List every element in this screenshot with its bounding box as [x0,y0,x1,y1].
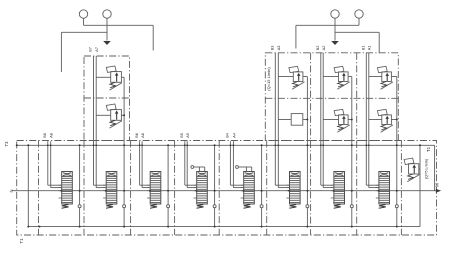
left block divider [84,97,130,99]
drain orifice section 5 [260,205,263,208]
wire: work lines section 7 [321,53,334,188]
wire: work lines section 1 [48,141,62,187]
wire: col 2 row2 output [348,119,352,121]
manifold outline (dash-dot) [17,141,437,236]
wire: work lines section 2 [94,56,106,188]
wire: left block RV1 output [121,76,124,78]
svg-text:B3: B3 [270,46,275,51]
wire: work lines section 6 [275,53,289,188]
wire: drain section 6 [306,77,308,227]
node: N tap section 4 [195,190,197,192]
relief valve R2b [334,109,350,132]
wire: T3 right drop to outlet M [434,145,436,190]
svg-text:T3: T3 [4,141,9,147]
relief valve R2a [334,66,350,89]
gallery T1 [28,226,420,228]
port circle P7a [79,10,87,18]
svg-text:B7: B7 [88,47,93,52]
drain orifice section 7 [350,205,353,208]
wire: left port pair [61,18,153,72]
node: work line taps on T3, section 4 [184,144,186,146]
relief valve RV-T [404,158,420,182]
node: work line taps on T3, section 5 [230,144,232,146]
wire: drain section 3 [167,145,169,226]
svg-text:A5: A5 [185,133,190,138]
valve V5 [241,172,255,209]
valve V1 [59,172,73,209]
drain orifice section 2 [123,205,126,208]
wire: right block col 1 row1 output [303,76,308,78]
relief valve RV7b [106,104,122,128]
valve V7 [331,172,345,209]
wire: plug output [303,119,308,121]
node: work line taps on T3, section 8 [365,144,367,146]
valve V8 [376,172,390,209]
wire: work lines section 3 [140,141,150,187]
wire: drain section 4 [214,145,216,226]
node: work line taps on T3, section 3 [139,144,141,146]
svg-text:A1: A1 [367,46,372,51]
valve V4 [194,172,208,209]
node: work line taps on T3, section 6 [274,144,276,146]
port circle P7b [103,10,111,18]
node: N tap section 7 [333,190,335,192]
pilot line of valve V4 [191,166,205,172]
wire: drain section 8 [396,77,398,227]
svg-text:M: M [435,183,440,187]
drain orifice section 8 [395,205,398,208]
drain orifice section 6 [306,205,309,208]
wire: drain section 2 [123,77,125,226]
valve V2 [103,172,117,209]
node: N tap section 6 [288,190,290,192]
wire: right block col 1 row1 input [278,76,293,78]
relief valve RV7a [106,66,122,90]
wire: drain section 5 [261,145,263,226]
wire: right block col 3 row2 input [369,119,382,121]
wire: right block col 3 row1 output [391,76,396,78]
valve V3 [147,172,161,209]
svg-text:B8: B8 [42,133,47,138]
wire: col 3 row2 output [391,119,396,121]
wire: right port pair [296,18,379,53]
wire T3-T1 left riser [27,145,29,226]
node: work line taps on T3, section 1 [47,144,49,146]
svg-text:A2: A2 [321,46,326,51]
drain orifice section 3 [167,205,170,208]
wire: end relief riser [419,145,421,226]
relief valve R3b [377,109,393,132]
wire: drain section 1 [79,145,81,226]
node: N tap section 5 [242,190,244,192]
wire: right block col 3 row1 input [369,76,382,78]
svg-text:N: N [9,189,14,192]
relief valve R1a [289,66,305,89]
wire: work lines section 4 [185,141,197,187]
wire: right block col 2 row2 input [323,119,338,121]
drain orifice section 1 [78,205,81,208]
right relief block outline [265,53,398,141]
node: work line taps on T3, section 7 [320,144,322,146]
wire: plug input [278,119,291,121]
gallery N [12,190,437,192]
left relief block outline [84,56,130,141]
gallery T3 [16,144,435,146]
tank arrow left [103,41,111,45]
relief valve R3a [377,66,393,89]
tank arrow right [331,41,339,45]
section divider lines (dash-dot) [38,141,40,236]
wire: work lines section 8 [366,53,378,188]
wire: right block col 2 row1 input [323,76,338,78]
wire: left block RV1 input [96,76,111,78]
wire: drain section 7 [351,77,353,227]
wire: right block col 2 row1 output [348,76,352,78]
node: N tap section 2 [105,190,107,192]
pilot line of valve V5 [236,166,252,172]
svg-text:B4: B4 [225,132,230,138]
node: N tap section 1 [60,190,62,192]
wire: left block RV2 input [96,114,111,116]
right block divider [265,97,398,99]
node: work line taps on T3, section 2 [93,144,95,146]
svg-text:A4: A4 [231,132,236,138]
svg-text:T1: T1 [19,238,24,244]
outlet arrow M [436,189,441,193]
svg-text:B2: B2 [315,46,320,51]
wire: work lines section 5 [230,141,243,187]
svg-text:A8: A8 [49,133,54,138]
node: N tap section 3 [149,190,151,192]
svg-text:A7: A7 [94,47,99,52]
svg-text:A3: A3 [276,46,281,51]
svg-text:T1: T1 [426,146,431,152]
port circle P1a [331,10,339,18]
wire: end relief tap [419,168,420,170]
svg-text:B6: B6 [134,133,139,138]
svg-text:A6: A6 [140,133,145,138]
svg-text:B1: B1 [361,46,366,51]
svg-text:B5: B5 [179,133,184,138]
node: N tap section 8 [378,190,380,192]
svg-text:(Q=15 L/min): (Q=15 L/min) [266,67,271,91]
port circle P1b [355,10,363,18]
svg-text:(Q=5 L/min): (Q=5 L/min) [425,158,429,179]
plug block [291,114,303,126]
wire: left block RV2 output [121,114,124,116]
valve V6 [286,172,300,209]
drain orifice section 4 [213,205,216,208]
